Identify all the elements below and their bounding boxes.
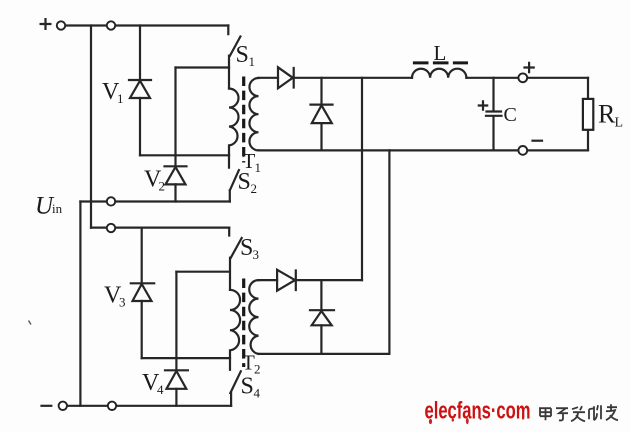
svg-text:S: S [238, 169, 251, 195]
wire V3 anode to T2 primary bottom [142, 357, 230, 359]
inductor L winding [412, 69, 466, 78]
svg-text:in: in [52, 201, 63, 216]
svg-text:R: R [598, 100, 616, 129]
label + capacitor polarity [479, 101, 487, 109]
svg-text:L: L [434, 41, 447, 65]
label T1 [243, 149, 262, 175]
wire T1 secondary top to rectifier diode [259, 77, 279, 79]
svg-text:elecfans·com: elecfans·com [425, 398, 531, 425]
wire rectifier to inductor node A [293, 77, 412, 79]
terminal circle input negative [59, 402, 67, 410]
svg-text:C: C [504, 104, 517, 126]
wire V2 cathode branch to S1-primary junction [176, 66, 230, 68]
svg-text:4: 4 [254, 386, 261, 401]
svg-text:1: 1 [255, 160, 262, 175]
wire T2 secondary bottom to riser node B [259, 353, 390, 355]
wire V4 cathode branch to S3-primary junction [176, 271, 229, 273]
svg-text:3: 3 [119, 295, 126, 310]
svg-text:1: 1 [117, 91, 124, 106]
label V2 [144, 167, 165, 194]
watermark elecfans.com [425, 398, 531, 425]
diode V1 [129, 26, 151, 156]
label - output [533, 140, 543, 142]
wire left drop upper mid rail to negative rail [79, 202, 81, 406]
freewheel diode bottom cell [310, 280, 334, 354]
label S3 [240, 235, 259, 262]
diode V3 [131, 228, 154, 359]
watermark chinese characters [539, 404, 618, 421]
label V4 [142, 370, 164, 397]
switch S1 [228, 26, 240, 89]
wire lower mid rail [91, 227, 229, 229]
svg-text:1: 1 [249, 54, 256, 69]
transformer T2 primary winding [230, 290, 240, 358]
transformer T2 secondary winding [249, 280, 258, 354]
svg-text:2: 2 [159, 179, 166, 194]
svg-text:L: L [615, 116, 624, 131]
transformer T1 primary winding [229, 89, 239, 156]
capacitor C [486, 78, 502, 151]
wire bottom rail [66, 405, 231, 407]
diode V2 [165, 68, 187, 202]
switch S2 [229, 155, 239, 201]
transformer T2 core [242, 279, 245, 368]
terminal circle output negative [518, 146, 527, 155]
switch S4 [230, 358, 241, 406]
svg-text:S: S [240, 235, 253, 261]
svg-text:3: 3 [253, 247, 260, 262]
label V3 [104, 283, 126, 310]
svg-text:S: S [236, 42, 249, 68]
wire top rail [64, 24, 228, 26]
wire output node B top cell bottom rail [259, 149, 589, 151]
wire upper mid rail [80, 200, 229, 202]
label L [434, 41, 447, 65]
terminal circle top rail second [107, 21, 115, 29]
freewheel diode top cell [311, 78, 333, 151]
transformer T1 secondary winding [249, 78, 258, 150]
resistor RL [583, 78, 593, 151]
svg-text:4: 4 [157, 382, 164, 397]
terminal circle input positive [57, 21, 65, 29]
terminal circle output positive [518, 73, 527, 82]
svg-text:S: S [241, 374, 254, 400]
wire V1 anode to T1 primary bottom [140, 154, 229, 156]
rectifier diode top cell [278, 67, 294, 88]
terminal circle Uin lower [107, 224, 115, 232]
label - input negative [42, 405, 52, 407]
wire left riser from top rail to lower mid rail [90, 26, 92, 228]
label + output [525, 63, 534, 72]
diode V4 [165, 272, 188, 406]
svg-text:2: 2 [251, 181, 258, 196]
terminal circle Uin upper [107, 197, 115, 205]
inductor L core bars [413, 61, 468, 64]
wire riser joining rectified outputs node A [361, 78, 363, 280]
watermark red ink specks [429, 417, 524, 424]
transformer T1 core [242, 77, 245, 163]
label Uin [35, 193, 63, 220]
label + input positive [41, 19, 51, 29]
label C [504, 104, 517, 126]
label RL [598, 100, 623, 131]
rectifier diode bottom cell [277, 270, 296, 291]
label S2 [238, 169, 258, 196]
switch S3 [229, 228, 242, 290]
stray scan mark [29, 321, 32, 325]
terminal circle bottom rail second [108, 402, 116, 410]
wire L to output plus terminal and RL top [466, 77, 588, 79]
label V1 [102, 79, 124, 106]
label T2 [242, 351, 261, 377]
wire riser joining returns node B [388, 150, 390, 354]
wire rectifier bottom cell to riser node A [296, 279, 362, 281]
svg-text:2: 2 [254, 362, 261, 377]
label S4 [241, 374, 261, 401]
label S1 [236, 42, 256, 69]
wire T2 secondary top to rectifier diode [259, 279, 278, 281]
